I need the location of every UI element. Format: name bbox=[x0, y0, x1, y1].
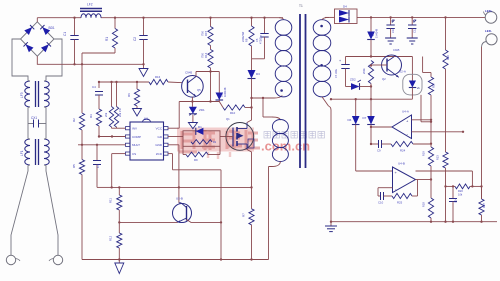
svg-text:R10: R10 bbox=[230, 111, 236, 115]
svg-text:INV: INV bbox=[132, 127, 137, 131]
svg-text:C7 100u: C7 100u bbox=[335, 68, 338, 78]
svg-text:LF2: LF2 bbox=[87, 3, 93, 7]
svg-text:C5: C5 bbox=[255, 38, 259, 42]
svg-text:VCC: VCC bbox=[156, 127, 163, 131]
svg-text:C14: C14 bbox=[454, 198, 458, 203]
svg-text:CX1: CX1 bbox=[31, 116, 37, 120]
svg-text:ZD2: ZD2 bbox=[350, 78, 356, 82]
svg-text:C11: C11 bbox=[391, 28, 395, 33]
svg-text:R12: R12 bbox=[109, 235, 113, 241]
svg-text:LED+: LED+ bbox=[485, 9, 493, 13]
svg-text:R27: R27 bbox=[482, 203, 486, 208]
svg-text:C1: C1 bbox=[63, 32, 67, 36]
svg-text:1N4148: 1N4148 bbox=[375, 28, 379, 38]
svg-text:R1: R1 bbox=[105, 37, 109, 41]
svg-text:D5: D5 bbox=[371, 32, 375, 36]
svg-text:Q2: Q2 bbox=[382, 77, 386, 81]
svg-text:R22: R22 bbox=[446, 55, 450, 60]
svg-text:LF3: LF3 bbox=[20, 92, 24, 98]
svg-text:R7: R7 bbox=[242, 213, 246, 217]
svg-text:1N4148: 1N4148 bbox=[223, 87, 227, 97]
svg-text:C10: C10 bbox=[378, 201, 384, 205]
svg-text:R15: R15 bbox=[204, 30, 208, 36]
svg-text:R20: R20 bbox=[458, 189, 463, 193]
svg-text:R24: R24 bbox=[400, 149, 406, 153]
svg-text:220k/1W: 220k/1W bbox=[241, 31, 245, 42]
svg-text:U4-A: U4-A bbox=[402, 110, 409, 114]
svg-text:C2: C2 bbox=[133, 37, 137, 41]
svg-text:U2-A: U2-A bbox=[399, 70, 406, 74]
svg-text:R11: R11 bbox=[109, 198, 113, 203]
svg-text:BD1: BD1 bbox=[49, 26, 55, 30]
svg-text:LED-: LED- bbox=[485, 29, 492, 33]
svg-text:472/1kv: 472/1kv bbox=[259, 34, 263, 44]
svg-text:R5: R5 bbox=[72, 164, 76, 168]
svg-text:T1: T1 bbox=[299, 4, 303, 8]
svg-text:D3: D3 bbox=[256, 72, 260, 76]
svg-text:ZCD: ZCD bbox=[156, 152, 163, 156]
svg-text:+: + bbox=[339, 59, 341, 63]
svg-text:U4-B: U4-B bbox=[398, 162, 405, 166]
svg-text:Q1: Q1 bbox=[226, 117, 230, 121]
svg-text:D6: D6 bbox=[348, 118, 352, 122]
svg-text:C9: C9 bbox=[377, 149, 381, 153]
svg-text:R23: R23 bbox=[436, 155, 440, 160]
svg-text:R8: R8 bbox=[245, 38, 249, 42]
svg-text:20k 1%: 20k 1% bbox=[118, 108, 122, 117]
svg-text:R16: R16 bbox=[155, 75, 161, 79]
svg-text:U1: U1 bbox=[144, 117, 148, 121]
svg-text:R3: R3 bbox=[89, 114, 93, 118]
svg-text:R25: R25 bbox=[397, 201, 403, 205]
svg-text:R14: R14 bbox=[204, 52, 208, 58]
svg-text:U3-B: U3-B bbox=[176, 197, 183, 201]
svg-text:MULT: MULT bbox=[132, 143, 140, 147]
svg-text:GND: GND bbox=[155, 143, 163, 147]
svg-text:Q5: Q5 bbox=[197, 88, 201, 92]
svg-text:R6: R6 bbox=[127, 93, 131, 97]
svg-text:D4: D4 bbox=[343, 5, 347, 9]
svg-text:COMP: COMP bbox=[132, 135, 141, 139]
svg-text:10k: 10k bbox=[458, 193, 463, 197]
svg-text:D2: D2 bbox=[220, 93, 224, 97]
svg-text:20k: 20k bbox=[104, 112, 108, 117]
svg-text:LF1: LF1 bbox=[20, 150, 24, 156]
svg-text:ZD1: ZD1 bbox=[199, 108, 205, 112]
svg-text:C945: C945 bbox=[185, 71, 193, 75]
svg-text:C3: C3 bbox=[96, 164, 100, 168]
svg-text:R17: R17 bbox=[432, 83, 436, 88]
svg-text:C4: C4 bbox=[92, 85, 96, 89]
svg-text:D1: D1 bbox=[198, 125, 202, 129]
svg-text:C945: C945 bbox=[393, 48, 400, 52]
svg-text:D7: D7 bbox=[363, 116, 367, 120]
svg-text:R18: R18 bbox=[422, 202, 426, 207]
svg-text:C12: C12 bbox=[413, 28, 417, 33]
svg-text:R2: R2 bbox=[72, 118, 76, 122]
svg-text:200k: 200k bbox=[362, 68, 366, 74]
svg-text:CS: CS bbox=[132, 152, 136, 156]
svg-text:R19: R19 bbox=[422, 151, 426, 156]
svg-text:R9: R9 bbox=[194, 158, 198, 162]
